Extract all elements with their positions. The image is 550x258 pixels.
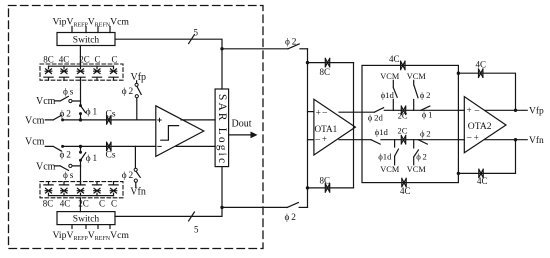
svg-text:+: + <box>474 133 479 143</box>
Vcm label (top phi-s) <box>36 96 56 107</box>
wire: comparator bottom output to SAR logic <box>176 145 215 147</box>
comparator + input mark <box>158 118 161 121</box>
wire: OTA2 bottom output to Vfn <box>484 139 527 141</box>
svg-text:5: 5 <box>194 225 199 235</box>
bottom array common rail <box>49 195 114 197</box>
svg-text:ϕ 1: ϕ 1 <box>86 154 98 164</box>
wire: OTA1 bottom output <box>339 139 371 141</box>
switch phi2 (bottom, to OTA1) <box>287 203 298 208</box>
svg-text:Vfp: Vfp <box>529 106 544 117</box>
svg-text:ϕ 2: ϕ 2 <box>416 152 427 162</box>
svg-text:8C: 8C <box>320 67 331 77</box>
svg-text:VCM: VCM <box>380 72 400 81</box>
svg-text:4C: 4C <box>60 198 71 208</box>
svg-text:ϕ 2: ϕ 2 <box>420 129 431 139</box>
svg-text:+: + <box>467 105 472 115</box>
ticks from labels into top Switch box <box>72 27 110 33</box>
Dout label <box>232 118 252 129</box>
svg-text:+: + <box>316 107 321 117</box>
svg-text:ϕ s: ϕ s <box>63 87 74 97</box>
svg-text:4C: 4C <box>476 59 487 69</box>
mid feedforward frame (4C bridges) <box>362 65 458 182</box>
junction node rail/bottom comparator line <box>79 145 82 148</box>
capacitor C (bottom array, second) <box>109 182 118 196</box>
svg-text:+: + <box>322 134 327 144</box>
svg-text:C: C <box>99 198 105 208</box>
wire: bottom phi2 branch to OTA1 input rail <box>222 206 287 208</box>
switch phi2d (top row) <box>374 108 383 113</box>
capacitor 4C (OTA2 bottom feedback) <box>458 140 515 174</box>
capacitor 4C (top array) <box>59 66 68 80</box>
op-amp OTA2 <box>464 97 506 153</box>
wire: Switch box down to top cap array <box>79 46 81 67</box>
svg-text:Vfn: Vfn <box>529 135 544 146</box>
bottom reference input labels Vip VREFP VREFN Vcm <box>53 230 130 242</box>
top capacitor array dashed box <box>40 64 123 80</box>
bus slash mark bottom <box>189 212 195 221</box>
svg-text:SAR Logic: SAR Logic <box>216 94 228 163</box>
junction node on SAR column (top) <box>220 47 223 50</box>
svg-text:2C: 2C <box>79 55 90 65</box>
top Switch box U1 <box>57 33 115 46</box>
wire: OTA2 top output to Vfp <box>486 109 528 111</box>
capacitor 2C (bottom row) <box>401 136 405 144</box>
svg-text:8C: 8C <box>320 175 331 185</box>
svg-text:–: – <box>314 134 320 144</box>
comparator hysteresis symbol <box>161 126 179 141</box>
junction node rail/top comparator line <box>79 118 82 121</box>
switch phi2 (bottom VCM, vertical) <box>414 140 419 165</box>
svg-text:ϕ 2: ϕ 2 <box>285 38 297 48</box>
Vfp reset label <box>131 72 147 83</box>
capacitor 8C (top feedback of OTA1) <box>308 62 354 64</box>
wire: bottom rail down to bottom cap array <box>80 166 82 185</box>
wire: OTA1 + input tap <box>308 111 314 113</box>
junction node rail/8C bottom <box>306 186 309 189</box>
switch phi1d (top VCM, vertical) <box>393 80 397 110</box>
wire: bottom comparator input line <box>63 145 156 147</box>
svg-text:ϕ 2: ϕ 2 <box>122 171 134 181</box>
junction node OTA2 top input/feedback <box>457 72 460 75</box>
capacitor 2C (bottom array) <box>76 182 85 196</box>
capacitor 2C (top array) <box>76 66 85 80</box>
wire: OTA1 input rail (right column) <box>307 49 309 208</box>
switch phi1 (top, vertical on rail) <box>79 104 86 120</box>
svg-text:OTA1: OTA1 <box>315 124 338 134</box>
switch phi2 (bottom row) <box>418 140 427 144</box>
svg-text:5: 5 <box>194 28 199 38</box>
svg-text:ϕ 2: ϕ 2 <box>60 151 72 161</box>
capacitor labels 8C 4C 2C C C (bottom array) <box>43 198 117 208</box>
svg-text:VCM: VCM <box>407 72 427 81</box>
svg-text:ϕ1d: ϕ1d <box>378 152 392 162</box>
capacitor 4C (bottom bridge) <box>402 178 406 186</box>
top array common rail <box>49 65 114 67</box>
svg-text:Vcm: Vcm <box>36 96 56 107</box>
junction node OTA2 top output <box>514 109 517 112</box>
wire: 8C vertical (feedback column) <box>353 63 355 188</box>
svg-text:ϕ 2d: ϕ 2d <box>368 112 384 122</box>
capacitor 4C (OTA2 top feedback) <box>458 73 515 110</box>
capacitor C (bottom array, first) <box>92 182 101 196</box>
capacitor 4C (top bridge) <box>401 61 405 69</box>
svg-text:–: – <box>322 107 328 117</box>
wire: top row to OTA2 <box>384 109 458 111</box>
svg-text:2C: 2C <box>398 126 408 136</box>
switch phi2 (Vfn reset) <box>134 146 140 187</box>
svg-text:Switch: Switch <box>73 215 100 225</box>
bottom Switch box U2 <box>57 212 115 225</box>
capacitor Cs (top) <box>107 116 111 124</box>
wire: bottom array rail to bottom Switch box <box>79 198 81 212</box>
svg-text:4C: 4C <box>477 176 488 186</box>
capacitor 8C (bottom feedback of OTA1) <box>308 187 354 189</box>
wire: OTA1 - input tap <box>308 139 314 141</box>
wire: OTA2 bottom input <box>458 139 464 141</box>
svg-text:Vcm: Vcm <box>25 136 45 147</box>
capacitor 2C (top row) <box>401 106 405 114</box>
svg-text:ϕ 1: ϕ 1 <box>86 107 98 117</box>
comparator - input mark <box>158 145 161 147</box>
switch phi2 (top sampling, from Vcm) <box>45 115 64 121</box>
op-amp OTA1 <box>314 99 356 155</box>
svg-text:C: C <box>94 55 100 65</box>
Vfn reset label <box>130 186 146 197</box>
svg-text:8C: 8C <box>43 55 54 65</box>
capacitor C (top array, first) <box>92 66 101 80</box>
svg-text:Vcm: Vcm <box>25 115 45 126</box>
top reference input labels Vip VREFP VREFN Vcm <box>53 17 130 29</box>
svg-text:VipVREFPVREFNVcm: VipVREFPVREFNVcm <box>53 230 130 242</box>
svg-text:ϕ 1: ϕ 1 <box>422 109 433 119</box>
svg-text:4C: 4C <box>59 55 70 65</box>
ticks from bottom Switch box to labels <box>72 225 110 229</box>
junction node on SAR column (bottom) <box>220 206 223 209</box>
wire: top phi2 branch to OTA1 input rail <box>222 48 288 50</box>
svg-text:Dout: Dout <box>232 118 252 129</box>
wire: OTA1 top output <box>339 111 374 113</box>
svg-text:ϕ 2: ϕ 2 <box>60 110 72 120</box>
VCM labels (top) <box>380 72 426 81</box>
Vcm label (bottom phi2 sampling switch) <box>25 136 45 147</box>
svg-text:Vcm: Vcm <box>36 161 56 172</box>
svg-text:–: – <box>474 105 480 115</box>
svg-text:Vfn: Vfn <box>130 186 146 197</box>
svg-text:C: C <box>111 198 117 208</box>
VCM labels (bottom) <box>380 165 426 174</box>
svg-text:4C: 4C <box>389 54 400 64</box>
Dout output arrow <box>229 134 251 136</box>
junction node OTA2 bottom output <box>514 138 517 141</box>
svg-text:VipVREFPVREFNVcm: VipVREFPVREFNVcm <box>53 17 130 29</box>
SAR Logic box U4 <box>215 89 229 167</box>
svg-text:VCM: VCM <box>407 165 427 174</box>
junction node OTA2 bottom input/feedback <box>457 172 460 175</box>
switch phi2 (Vfp reset) <box>135 81 141 120</box>
outer dashed boundary of SAR ADC block <box>9 6 264 249</box>
wire: top comparator input line <box>63 119 156 121</box>
wire: top array bottom plate down to phi-s tap <box>80 80 82 105</box>
switch phi2 (top VCM, vertical) <box>414 80 418 110</box>
switch phi1 (top row) <box>421 106 430 110</box>
svg-text:8C: 8C <box>43 198 54 208</box>
wire: bottom 5-bit bus from Switch to SAR logic <box>115 167 222 217</box>
bus width label 5 (bottom) <box>194 225 199 235</box>
bottom capacitor array dashed box <box>40 182 123 198</box>
bus slash mark top <box>189 35 195 44</box>
switch phi1 (bottom, vertical on rail) <box>79 146 86 166</box>
capacitor labels 8C 4C 2C C C (top array) <box>43 55 117 65</box>
svg-text:ϕ s: ϕ s <box>63 171 74 181</box>
bus width label 5 (top) <box>194 28 199 38</box>
wire: OTA2 top input <box>458 109 464 111</box>
Vcm label (top phi2 sampling switch) <box>25 115 45 126</box>
capacitor C (top array, second) <box>109 66 118 80</box>
switch phi2 (top, to OTA1) <box>288 44 299 49</box>
switch phi2 (bottom sampling, from Vcm) <box>45 145 64 151</box>
svg-text:VCM: VCM <box>380 165 400 174</box>
junction node rail/8C top <box>306 61 309 64</box>
svg-text:OTA2: OTA2 <box>468 121 492 132</box>
capacitor 8C (bottom array) <box>44 182 53 196</box>
svg-text:Vfp: Vfp <box>131 72 147 83</box>
wire: bottom row to OTA2 <box>381 139 459 141</box>
svg-text:4C: 4C <box>400 186 411 196</box>
svg-text:C: C <box>111 55 117 65</box>
Vcm label (bottom phi-s) <box>36 161 56 172</box>
switch phi1d (bottom row) <box>371 140 380 144</box>
switch phi1d (bottom VCM, vertical) <box>395 140 399 165</box>
capacitor 8C (top array) <box>44 66 53 80</box>
comparator U3 <box>156 106 204 157</box>
svg-text:ϕ 2: ϕ 2 <box>420 90 431 100</box>
wire: top 5-bit bus from Switch to SAR logic <box>115 39 222 89</box>
capacitor 4C (bottom array) <box>59 182 68 196</box>
svg-text:ϕ1d: ϕ1d <box>375 127 389 137</box>
wire: comparator top output to SAR logic <box>181 119 215 121</box>
svg-text:ϕ 2: ϕ 2 <box>122 87 134 97</box>
svg-text:ϕ 2: ϕ 2 <box>285 213 297 223</box>
svg-text:Switch: Switch <box>73 36 100 46</box>
svg-text:Cs: Cs <box>106 110 116 120</box>
svg-text:2C: 2C <box>398 110 408 120</box>
switch phi-s (top) <box>55 96 81 102</box>
svg-text:Cs: Cs <box>106 151 116 161</box>
svg-text:–: – <box>466 132 472 142</box>
capacitor Cs (bottom) <box>107 142 111 150</box>
switch phi-s (bottom) <box>55 164 81 170</box>
svg-text:ϕ1d: ϕ1d <box>381 90 395 100</box>
